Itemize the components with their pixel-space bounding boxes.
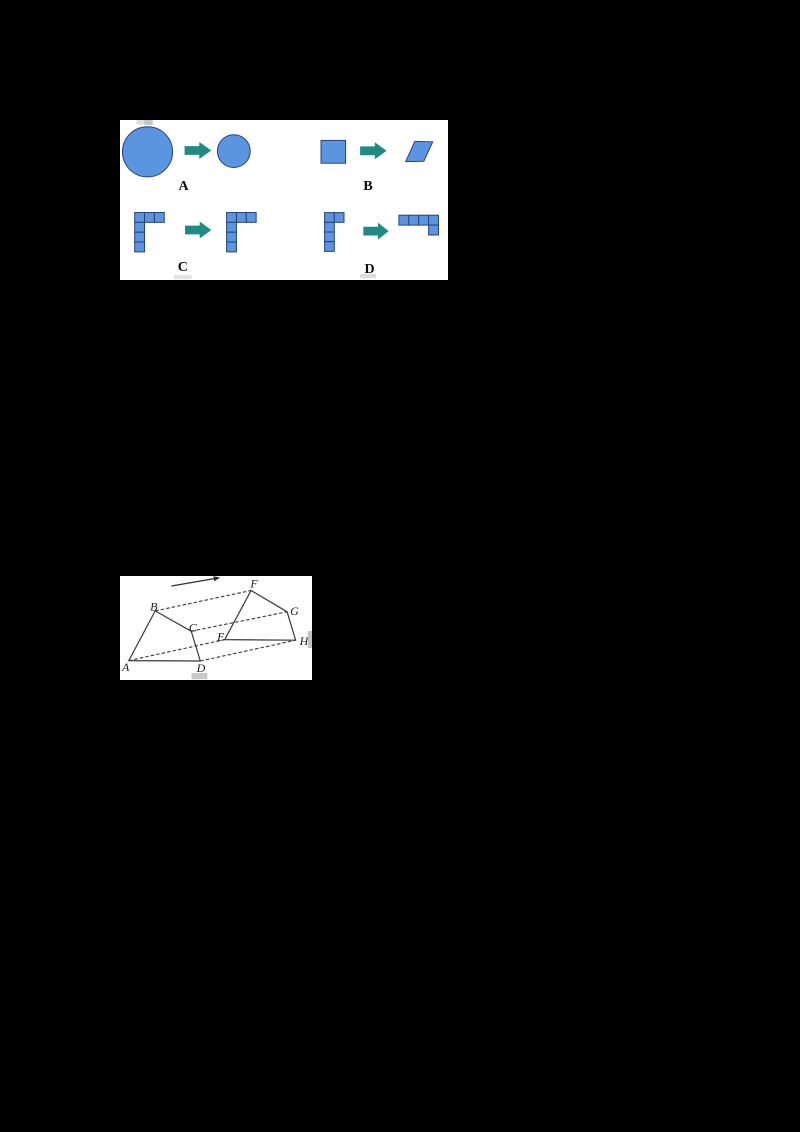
option C arrow — [185, 222, 211, 239]
dashed line C-G — [191, 612, 287, 631]
option A small circle — [217, 135, 250, 168]
gray smudge below C — [174, 275, 192, 279]
option D left shape — [325, 213, 344, 252]
svg-text:A: A — [121, 660, 130, 674]
option C left L-shape — [135, 213, 165, 252]
svg-text:E: E — [216, 629, 225, 643]
gray smudge right edge — [308, 631, 312, 648]
svg-text:G: G — [290, 604, 299, 618]
dashed line A-E — [129, 640, 225, 661]
panel 2: translated quadrilateral ABCD to EFGH — [120, 576, 312, 680]
dashed line B-F — [155, 591, 251, 611]
svg-text:A: A — [178, 179, 189, 194]
quadrilateral ABCD solid — [129, 611, 201, 661]
option D arrow — [363, 223, 388, 240]
svg-text:C: C — [189, 621, 198, 635]
option A arrow — [185, 142, 212, 159]
option B square — [321, 140, 346, 163]
option D right shape — [399, 215, 439, 235]
translation direction arrow — [172, 579, 216, 587]
svg-text:D: D — [196, 661, 206, 675]
gray smudge below D — [360, 274, 376, 278]
svg-text:B: B — [363, 179, 372, 194]
dashed line D-H — [200, 640, 295, 661]
panel 1: multiple choice shapes A-D — [120, 120, 448, 280]
gray smudge top — [136, 120, 145, 125]
vertex labels — [121, 577, 310, 676]
option A large circle — [122, 127, 172, 177]
option B arrow — [360, 142, 387, 159]
option C right L-shape — [227, 213, 257, 252]
svg-text:B: B — [150, 599, 158, 613]
quadrilateral EFGH solid — [225, 591, 296, 641]
gray smudge below D — [192, 673, 208, 679]
option B parallelogram — [406, 141, 433, 161]
svg-text:F: F — [249, 577, 258, 591]
svg-text:C: C — [178, 260, 188, 275]
